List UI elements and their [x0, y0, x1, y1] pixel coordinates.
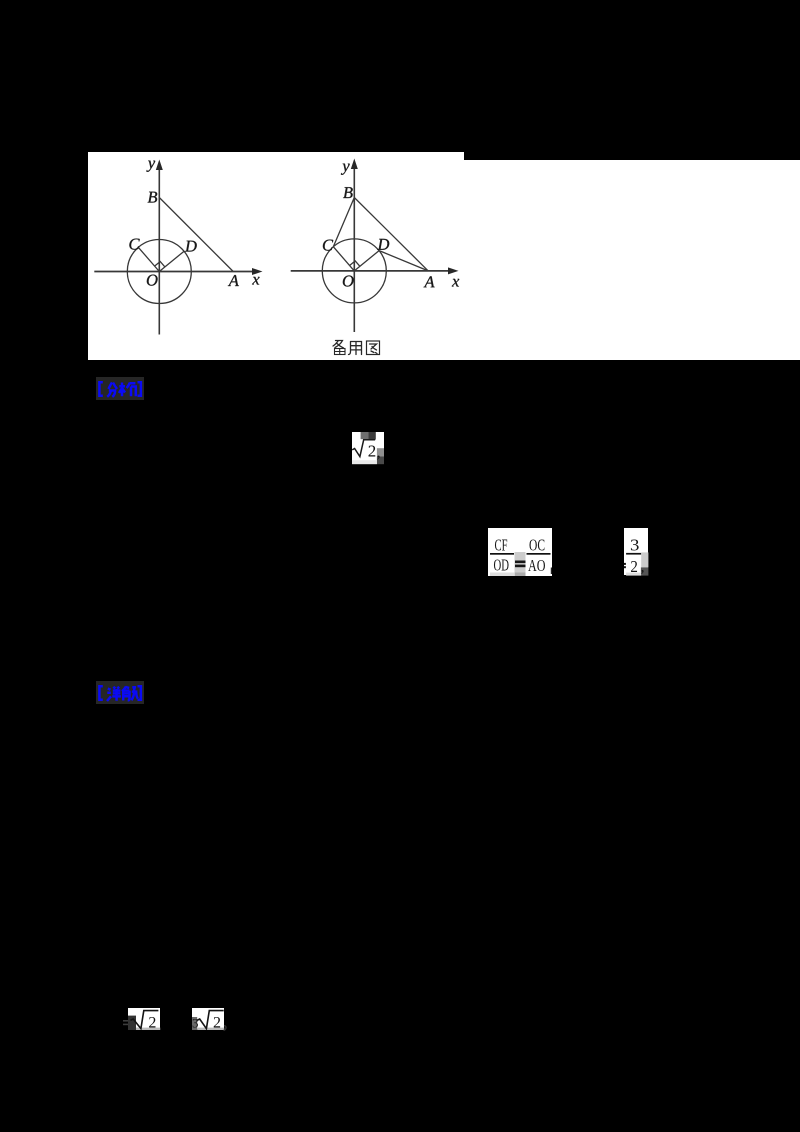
- svg-text:AO: AO: [528, 556, 546, 575]
- svg-text:2: 2: [148, 1014, 156, 1030]
- svg-text:3: 3: [630, 535, 639, 554]
- svg-text:OC: OC: [529, 535, 545, 554]
- svg-text:2: 2: [213, 1014, 221, 1030]
- svg-text:CF: CF: [495, 535, 508, 554]
- svg-text:,: ,: [377, 444, 381, 461]
- svg-text:2: 2: [368, 441, 377, 460]
- svg-text:OD: OD: [494, 555, 510, 574]
- svg-text:,: ,: [641, 559, 645, 575]
- svg-text:2: 2: [630, 557, 638, 576]
